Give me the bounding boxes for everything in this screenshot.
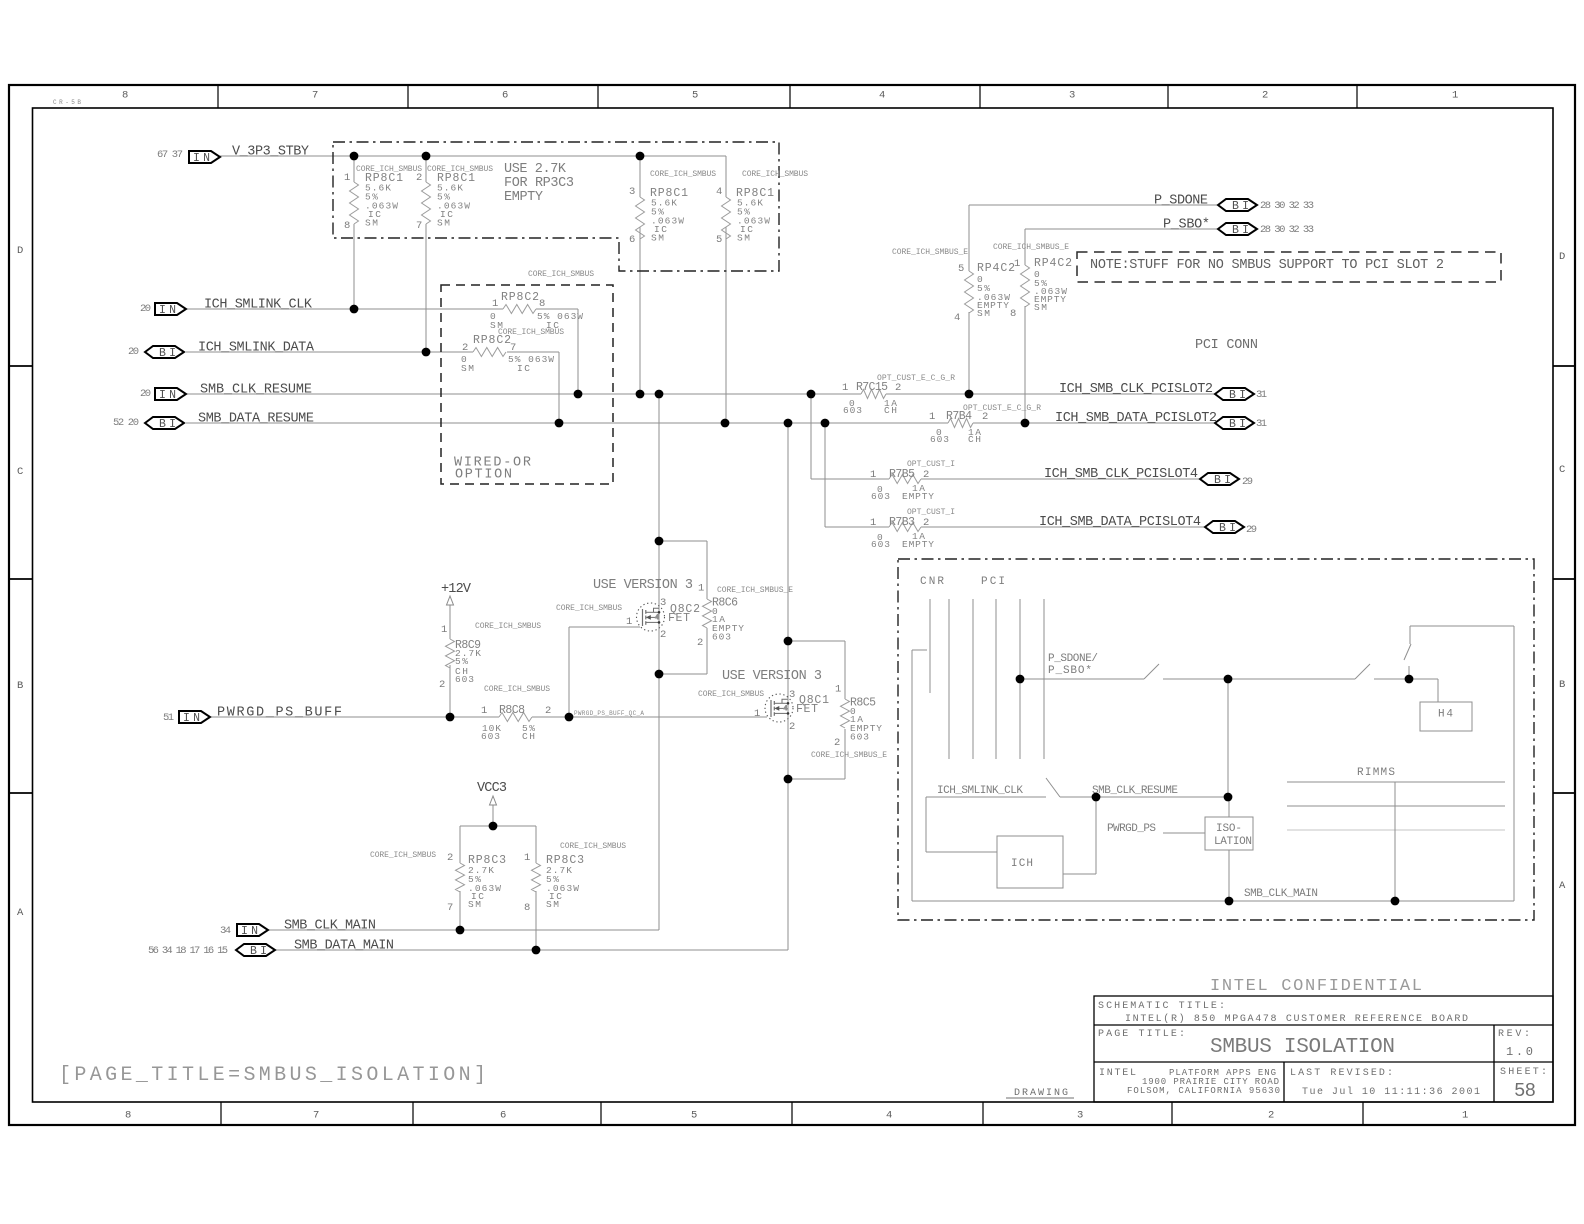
svg-text:PWRGD_PS: PWRGD_PS	[1107, 823, 1156, 835]
svg-text:SMB_CLK_RESUME: SMB_CLK_RESUME	[1092, 785, 1178, 797]
svg-text:8: 8	[1010, 308, 1016, 320]
svg-text:B: B	[17, 680, 23, 692]
svg-text:SMB_CLK_MAIN: SMB_CLK_MAIN	[1244, 888, 1318, 900]
svg-text:20: 20	[140, 303, 151, 315]
svg-text:B: B	[1559, 679, 1565, 691]
svg-text:ICH_SMB_DATA_PCISLOT2: ICH_SMB_DATA_PCISLOT2	[1055, 411, 1217, 426]
svg-text:8: 8	[539, 298, 545, 310]
svg-text:31: 31	[1256, 389, 1267, 401]
svg-text:7: 7	[447, 902, 453, 914]
svg-text:EMPTY: EMPTY	[902, 539, 934, 550]
svg-text:56 34 18 17 16 15: 56 34 18 17 16 15	[148, 945, 228, 957]
svg-text:NOTE:STUFF FOR NO SMBUS SUPPOR: NOTE:STUFF FOR NO SMBUS SUPPORT TO PCI S…	[1090, 258, 1444, 273]
svg-text:SM: SM	[461, 363, 474, 374]
svg-text:1: 1	[870, 469, 876, 481]
svg-text:CORE_ICH_SMBUS: CORE_ICH_SMBUS	[475, 622, 541, 631]
svg-text:2: 2	[982, 411, 988, 423]
svg-text:SMB_DATA_RESUME: SMB_DATA_RESUME	[198, 412, 314, 427]
svg-text:3: 3	[1077, 1110, 1083, 1122]
svg-text:2: 2	[697, 637, 703, 649]
svg-text:2: 2	[895, 382, 901, 394]
svg-text:SM: SM	[651, 233, 664, 244]
svg-text:67 37: 67 37	[157, 149, 183, 161]
svg-text:29: 29	[1242, 476, 1253, 488]
svg-text:VCC3: VCC3	[477, 781, 507, 796]
svg-text:2: 2	[439, 679, 445, 691]
svg-text:1: 1	[1462, 1110, 1468, 1122]
svg-text:1: 1	[524, 852, 530, 864]
svg-text:P_SDONE/: P_SDONE/	[1048, 653, 1098, 665]
svg-text:SM: SM	[977, 308, 990, 319]
svg-text:2: 2	[1262, 90, 1268, 102]
svg-text:FOLSOM, CALIFORNIA 95630: FOLSOM, CALIFORNIA 95630	[1127, 1086, 1280, 1096]
svg-text:CORE_ICH_SMBUS: CORE_ICH_SMBUS	[484, 685, 550, 694]
svg-text:CORE_ICH_SMBUS_E: CORE_ICH_SMBUS_E	[717, 586, 793, 595]
svg-text:603: 603	[930, 434, 949, 445]
svg-text:1.0: 1.0	[1506, 1045, 1533, 1059]
svg-text:28 30 32 33: 28 30 32 33	[1260, 224, 1314, 236]
svg-text:ICH: ICH	[1011, 858, 1033, 870]
svg-text:RP4C2: RP4C2	[977, 262, 1015, 275]
svg-text:P_SBO*: P_SBO*	[1163, 218, 1210, 233]
svg-text:4: 4	[655, 614, 659, 621]
svg-text:6: 6	[629, 234, 635, 246]
svg-text:R7C15: R7C15	[856, 381, 888, 394]
svg-text:D: D	[1559, 251, 1565, 263]
svg-text:603: 603	[871, 491, 890, 502]
svg-text:58: 58	[1514, 1080, 1536, 1102]
svg-text:7: 7	[416, 220, 422, 232]
svg-text:RP4C2: RP4C2	[1034, 257, 1072, 270]
svg-text:SMB_CLK_MAIN: SMB_CLK_MAIN	[284, 919, 376, 934]
svg-text:P_SBO*: P_SBO*	[1048, 665, 1092, 677]
svg-text:1: 1	[626, 616, 632, 628]
svg-text:4: 4	[886, 1110, 892, 1122]
svg-text:CH: CH	[522, 731, 535, 742]
svg-text:ICH_SMLINK_DATA: ICH_SMLINK_DATA	[198, 341, 315, 356]
svg-text:H4: H4	[1438, 709, 1453, 721]
svg-text:ICH_SMB_DATA_PCISLOT4: ICH_SMB_DATA_PCISLOT4	[1039, 515, 1201, 530]
svg-text:20: 20	[140, 388, 151, 400]
svg-text:29: 29	[1246, 524, 1257, 536]
svg-text:1: 1	[492, 298, 498, 310]
svg-text:USE VERSION 3: USE VERSION 3	[593, 578, 693, 593]
svg-text:SM: SM	[468, 899, 481, 910]
svg-text:7: 7	[510, 342, 516, 354]
svg-text:SM: SM	[437, 218, 450, 229]
svg-text:ICH_SMB_CLK_PCISLOT4: ICH_SMB_CLK_PCISLOT4	[1044, 467, 1198, 482]
svg-text:2: 2	[447, 852, 453, 864]
svg-text:SMB_CLK_RESUME: SMB_CLK_RESUME	[200, 383, 312, 398]
svg-text:LATION: LATION	[1214, 836, 1252, 848]
svg-text:SM: SM	[546, 899, 559, 910]
svg-text:C: C	[17, 466, 23, 478]
svg-text:RIMMS: RIMMS	[1357, 767, 1395, 779]
svg-text:A: A	[1559, 880, 1566, 892]
svg-text:5: 5	[691, 1110, 697, 1122]
svg-text:4: 4	[716, 186, 722, 198]
svg-text:34: 34	[220, 925, 231, 937]
svg-text:1: 1	[1452, 90, 1458, 102]
svg-text:603: 603	[871, 539, 890, 550]
svg-text:28 30 32 33: 28 30 32 33	[1260, 200, 1314, 212]
svg-text:4: 4	[954, 312, 960, 324]
svg-text:INTEL CONFIDENTIAL: INTEL CONFIDENTIAL	[1210, 977, 1422, 996]
svg-text:RP8C2: RP8C2	[501, 291, 539, 304]
svg-text:7: 7	[313, 1110, 319, 1122]
svg-text:ISO-: ISO-	[1216, 823, 1242, 835]
svg-text:5% 063W: 5% 063W	[537, 311, 583, 322]
svg-text:1: 1	[344, 172, 350, 184]
svg-text:SM: SM	[1034, 302, 1047, 313]
svg-text:CORE_ICH_SMBUS: CORE_ICH_SMBUS	[742, 170, 808, 179]
svg-text:1: 1	[481, 705, 487, 717]
svg-text:P_SDONE: P_SDONE	[1154, 194, 1208, 209]
svg-text:FET: FET	[796, 703, 818, 716]
svg-text:USE 2.7K: USE 2.7K	[504, 162, 567, 177]
svg-text:8: 8	[125, 1110, 131, 1122]
svg-text:51: 51	[163, 712, 174, 724]
svg-text:2: 2	[545, 705, 551, 717]
svg-text:8: 8	[344, 220, 350, 232]
svg-text:603: 603	[455, 674, 474, 685]
svg-text:5: 5	[692, 90, 698, 102]
svg-text:OPT_CUST_E_C_G_R: OPT_CUST_E_C_G_R	[877, 374, 955, 383]
svg-text:5% 063W: 5% 063W	[508, 354, 554, 365]
svg-text:R7B3: R7B3	[889, 516, 915, 529]
svg-text:FOR RP3C3: FOR RP3C3	[504, 176, 574, 191]
svg-text:CH: CH	[884, 405, 897, 416]
svg-text:CORE_ICH_SMBUS_E: CORE_ICH_SMBUS_E	[892, 248, 968, 257]
svg-text:R7B5: R7B5	[889, 468, 915, 481]
svg-text:603: 603	[712, 632, 731, 643]
svg-text:RP8C2: RP8C2	[473, 334, 511, 347]
svg-text:FET: FET	[668, 612, 690, 625]
svg-text:CORE_ICH_SMBUS_E: CORE_ICH_SMBUS_E	[993, 243, 1069, 252]
svg-text:2: 2	[462, 342, 468, 354]
svg-text:V_3P3_STBY: V_3P3_STBY	[232, 145, 309, 160]
svg-text:EMPTY: EMPTY	[504, 190, 543, 205]
svg-text:SM: SM	[737, 233, 750, 244]
svg-text:5: 5	[716, 234, 722, 246]
svg-text:2: 2	[834, 737, 840, 749]
svg-text:1: 1	[870, 517, 876, 529]
svg-text:PWRGD_PS_BUFF_QC_A: PWRGD_PS_BUFF_QC_A	[574, 710, 644, 717]
svg-text:3: 3	[1069, 90, 1075, 102]
svg-text:D: D	[17, 245, 23, 257]
svg-text:1: 1	[441, 624, 447, 636]
svg-text:3: 3	[629, 186, 635, 198]
svg-text:CNR: CNR	[920, 576, 944, 588]
svg-text:603: 603	[850, 732, 869, 743]
svg-text:C: C	[1559, 464, 1565, 476]
svg-text:INTEL: INTEL	[1099, 1068, 1136, 1079]
svg-text:R8C8: R8C8	[499, 704, 525, 717]
svg-text:PCI CONN: PCI CONN	[1195, 338, 1258, 353]
svg-text:31: 31	[1256, 418, 1267, 430]
svg-text:Tue Jul 10 11:11:36 2001: Tue Jul 10 11:11:36 2001	[1302, 1086, 1480, 1098]
svg-text:PCI: PCI	[981, 576, 1005, 588]
svg-text:IC: IC	[517, 363, 530, 374]
svg-text:2: 2	[789, 721, 795, 733]
svg-text:4: 4	[879, 90, 885, 102]
svg-text:603: 603	[843, 405, 862, 416]
svg-text:3: 3	[660, 597, 666, 609]
svg-text:OPT_CUST_E_C_G_R: OPT_CUST_E_C_G_R	[963, 404, 1041, 413]
svg-text:8: 8	[122, 90, 128, 102]
svg-text:R7B4: R7B4	[946, 410, 972, 423]
svg-text:A: A	[17, 907, 24, 919]
svg-text:ICH_SMLINK_CLK: ICH_SMLINK_CLK	[204, 298, 313, 313]
svg-text:CORE_ICH_SMBUS: CORE_ICH_SMBUS	[650, 170, 716, 179]
svg-text:CORE_ICH_SMBUS: CORE_ICH_SMBUS	[698, 690, 764, 699]
svg-text:CORE_ICH_SMBUS: CORE_ICH_SMBUS	[556, 604, 622, 613]
svg-text:603: 603	[481, 731, 500, 742]
svg-text:CORE_ICH_SMBUS: CORE_ICH_SMBUS	[528, 270, 594, 279]
svg-text:+12V: +12V	[441, 582, 472, 597]
svg-text:CORE_ICH_SMBUS: CORE_ICH_SMBUS	[370, 851, 436, 860]
svg-text:4: 4	[784, 705, 788, 712]
svg-text:CORE_ICH_SMBUS: CORE_ICH_SMBUS	[560, 842, 626, 851]
svg-text:2: 2	[923, 517, 929, 529]
svg-text:CH: CH	[968, 434, 981, 445]
svg-text:1: 1	[929, 411, 935, 423]
svg-text:1: 1	[1014, 258, 1020, 270]
svg-text:6: 6	[500, 1110, 506, 1122]
svg-text:DRAWING: DRAWING	[1014, 1088, 1068, 1099]
svg-text:2: 2	[923, 469, 929, 481]
svg-text:1: 1	[698, 583, 704, 595]
svg-text:2: 2	[1268, 1110, 1274, 1122]
svg-text:5: 5	[958, 263, 964, 275]
svg-text:SMB_DATA_MAIN: SMB_DATA_MAIN	[294, 939, 394, 954]
svg-text:2: 2	[660, 629, 666, 641]
svg-text:3: 3	[789, 689, 795, 701]
svg-text:ICH_SMB_CLK_PCISLOT2: ICH_SMB_CLK_PCISLOT2	[1059, 382, 1213, 397]
svg-text:EMPTY: EMPTY	[902, 491, 934, 502]
svg-text:2: 2	[416, 172, 422, 184]
svg-text:PWRGD_PS_BUFF: PWRGD_PS_BUFF	[217, 706, 342, 721]
svg-text:USE VERSION 3: USE VERSION 3	[722, 669, 822, 684]
svg-text:8: 8	[524, 902, 530, 914]
svg-text:SM: SM	[365, 218, 378, 229]
svg-text:SMBUS ISOLATION: SMBUS ISOLATION	[1210, 1036, 1395, 1059]
svg-text:PAGE TITLE:: PAGE TITLE:	[1098, 1029, 1185, 1040]
svg-text:1: 1	[754, 708, 760, 720]
svg-text:52 20: 52 20	[113, 417, 139, 429]
svg-text:1: 1	[842, 382, 848, 394]
svg-text:20: 20	[128, 346, 139, 358]
svg-text:INTEL(R) 850 MPGA478 CUSTOMER: INTEL(R) 850 MPGA478 CUSTOMER REFERENCE …	[1125, 1013, 1468, 1025]
svg-text:CORE_ICH_SMBUS_E: CORE_ICH_SMBUS_E	[811, 751, 887, 760]
svg-text:7: 7	[312, 90, 318, 102]
svg-text:ICH_SMLINK_CLK: ICH_SMLINK_CLK	[937, 785, 1023, 797]
svg-text:1: 1	[835, 684, 841, 696]
svg-text:6: 6	[502, 90, 508, 102]
